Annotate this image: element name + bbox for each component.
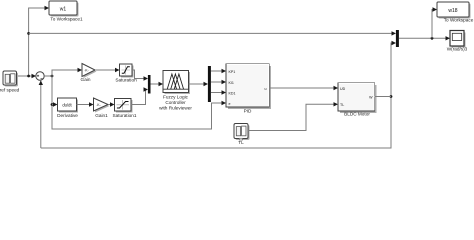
svg-text:Gain1: Gain1 [95,113,108,118]
wire: fuzzy to demux [189,83,205,85]
wire: PID u output to BLDC UD [269,87,335,89]
wire: into derivative [52,104,54,106]
wire: sum output to branch point [44,75,52,77]
svg-text:ref speed: ref speed [0,87,20,92]
demux feeding PID gains [208,66,211,102]
wire: gain to saturation [95,69,116,71]
gain block Gain1 [94,98,110,118]
wire: feedback rail along bottom and up right side [41,43,392,148]
wire: long reference line to right mux [29,32,392,34]
wire: error down to derivative row and e-rail [52,76,222,129]
wire: arrow into w1 [45,6,50,10]
wire: saturation1 to mux elbow [131,90,146,105]
svg-text:Saturation: Saturation [115,78,137,83]
node: error branch junction [51,75,54,78]
wire: derivative to gain1 [77,104,91,106]
fuzzy logic controller block [159,71,192,111]
wire: mux to fuzzy [151,83,160,85]
wire: ref speed output to sum [17,75,34,77]
wire: branch up from ref wire to w1 and top line [29,8,45,76]
source block ref speed [0,71,20,92]
svg-text:Derivative: Derivative [57,113,78,118]
node: derivative branch junction [51,103,54,106]
wire: arrow into sum left [32,74,37,78]
to workspace block w18 [437,2,474,23]
svg-text:KD1: KD1 [229,91,236,95]
wire: BLDC W output to feedback junction [375,96,392,98]
svg-text:with Ruleviewer: with Ruleviewer [159,106,192,111]
mux for scope comparison [396,30,399,47]
svg-text:-K-: -K- [96,103,100,107]
saturation block Saturation1 [113,99,137,119]
BLDC motor block [338,83,377,117]
mux before fuzzy controller [148,75,151,94]
svg-text:Saturation1: Saturation1 [113,113,137,118]
derivative block [57,98,78,118]
gain block Gain [81,64,97,83]
wire: saturation to mux elbow [132,70,145,79]
svg-text:TL: TL [340,103,344,107]
svg-text:Controller: Controller [165,100,186,105]
svg-text:KP1: KP1 [229,70,236,74]
node: junction to w18 [431,37,434,40]
svg-text:To Workspace1: To Workspace1 [50,17,83,22]
svg-text:w1: w1 [60,7,67,13]
wire: arrow into right mux bottom input [392,41,397,45]
source block TL [234,124,250,146]
node: junction on w1 vertical at top line [27,32,30,35]
svg-text:UD: UD [340,87,346,91]
svg-text:Fuzzy Logic: Fuzzy Logic [163,95,189,100]
svg-text:PID: PID [244,108,252,113]
wire: mux output to scope [399,37,447,39]
svg-text:KI1: KI1 [229,81,234,85]
wire: demux out KP1 [211,70,222,72]
wire: error up to gain row [52,70,78,76]
node: junction on ref wire [27,75,30,78]
svg-text:W(rad/s)3: W(rad/s)3 [447,47,468,52]
svg-text:W: W [369,95,373,99]
sum junction [36,72,44,80]
svg-text:du/dt: du/dt [62,102,72,107]
PID subsystem block [226,64,271,113]
svg-text:w18: w18 [448,8,457,14]
svg-text:Gain: Gain [81,77,91,82]
saturation block Saturation [115,64,137,83]
wire: gain1 to saturation1 [108,104,111,106]
wire: up to w18 [432,10,434,39]
svg-text:BLDC Motor: BLDC Motor [344,112,370,117]
wire: arrow into PID e input [222,101,227,105]
to workspace1 block w1 [49,1,83,22]
wire: feedback bottom rail up into sum [40,81,42,148]
svg-text:e: e [229,102,231,106]
svg-text:To Workspace: To Workspace [444,18,474,23]
wire: arrow into right mux top input [392,31,397,35]
svg-text:TL: TL [238,140,244,145]
wire: demux out KD1 [211,92,222,94]
scope block W(rad/s)3 [447,31,468,52]
node: junction of feedback with W output [390,95,393,98]
svg-text:u: u [265,87,267,91]
svg-text:-K-: -K- [84,69,88,73]
wire: TL to BLDC TL input [248,104,335,130]
wire: demux out KI1 [211,81,222,83]
